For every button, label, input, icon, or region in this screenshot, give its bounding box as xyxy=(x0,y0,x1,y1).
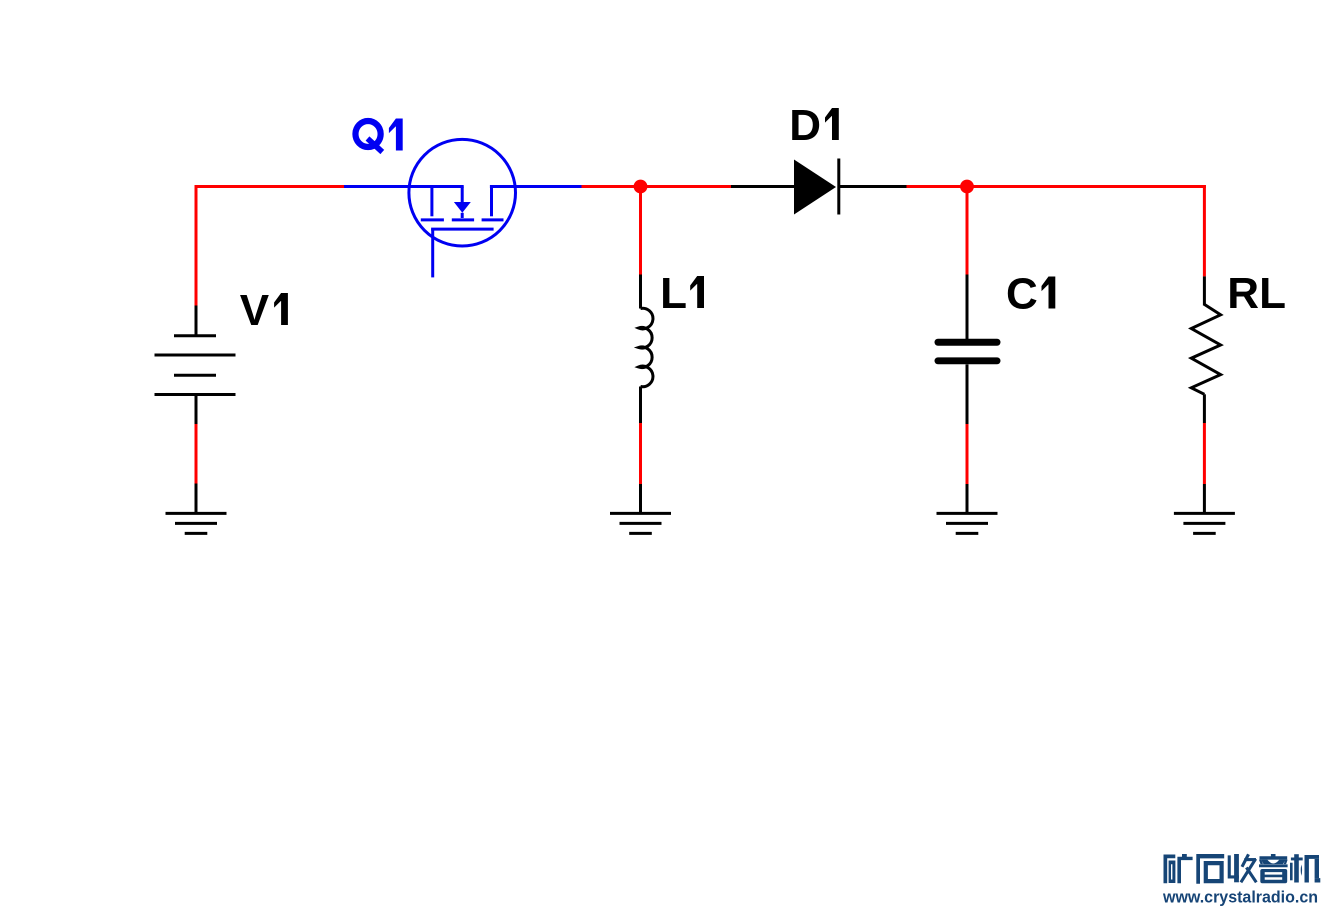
svg-text:L: L xyxy=(660,269,687,318)
svg-text:www.crystalradio.cn: www.crystalradio.cn xyxy=(1162,889,1318,907)
svg-text:C: C xyxy=(1006,270,1038,319)
svg-text:D: D xyxy=(789,101,821,150)
svg-text:V: V xyxy=(240,286,270,335)
svg-text:RL: RL xyxy=(1227,269,1286,318)
